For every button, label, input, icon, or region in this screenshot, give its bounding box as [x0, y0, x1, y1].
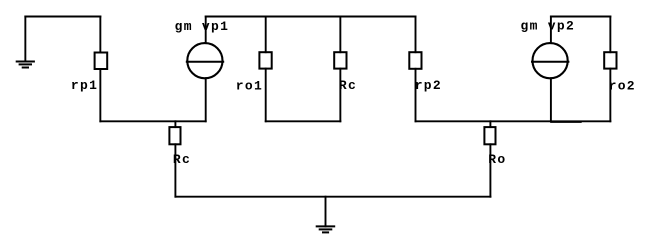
wire bottom bus: [175, 196, 490, 198]
ground (bottom): [316, 225, 336, 227]
svg-text:rp1: rp1: [71, 78, 98, 93]
wire ro1 bottom: [265, 69, 267, 122]
wire top-left horizontal (ground to rp1): [25, 16, 100, 18]
svg-text:ro1: ro1: [236, 79, 263, 94]
wire rp1 bottom: [99, 69, 101, 121]
wire Rc top: [339, 17, 341, 53]
wire gm-vp2 stem bottom: [550, 78, 552, 121]
wire bus ro1 to Rc: [266, 120, 341, 122]
wire ground stem left: [24, 17, 26, 62]
wire Ro tap top: [489, 121, 491, 127]
current source U2 gm vp2 circle: [533, 43, 568, 78]
svg-text:gm vp2: gm vp2: [521, 19, 576, 34]
wire Rc bottom: [339, 69, 341, 122]
wire Ro bottom: [489, 144, 491, 196]
wire gm-vp2 to ro2 lower segment (doubled in source): [551, 121, 581, 123]
svg-text:Ro: Ro: [488, 152, 506, 167]
svg-text:Rc: Rc: [173, 152, 191, 167]
wire gm-vp1 stem top: [205, 17, 207, 44]
svg-text:Rc: Rc: [339, 78, 357, 93]
wire ro1 top: [265, 17, 267, 53]
current source U1 gm vp1 circle: [187, 43, 222, 78]
resistor ro1: [259, 52, 271, 68]
wire gm-vp1 stem bottom: [205, 78, 207, 121]
wire gm-vp2 stem top: [550, 17, 552, 44]
wire ro2 top: [609, 17, 611, 53]
wire bus rp2 to ro2: [416, 120, 611, 122]
wire ground stem bottom: [325, 197, 327, 227]
wire top rail middle: [206, 16, 416, 18]
resistor rp1: [95, 53, 108, 70]
wire bus rp1 to gm-vp1: [100, 120, 205, 122]
resistor Rc (top): [334, 52, 346, 68]
wire Rc2 bottom: [174, 144, 176, 196]
resistor Ro: [484, 127, 495, 144]
resistor Rc (middle): [169, 127, 180, 144]
svg-text:rp2: rp2: [415, 78, 442, 93]
wire rp1 top: [99, 17, 101, 53]
wire rp2 bottom: [415, 69, 417, 122]
wire top rail right: [551, 16, 610, 18]
svg-text:ro2: ro2: [609, 79, 636, 94]
current source U1 bar: [186, 61, 224, 63]
wire Rc2 tap top: [174, 121, 176, 127]
svg-text:gm vp1: gm vp1: [175, 19, 230, 34]
current source U2 bar: [531, 61, 569, 63]
resistor rp2: [409, 52, 421, 69]
ground (top left): [16, 61, 35, 63]
wire ro2 bottom: [609, 69, 611, 122]
resistor ro2: [604, 52, 616, 68]
wire rp2 top: [415, 17, 417, 53]
